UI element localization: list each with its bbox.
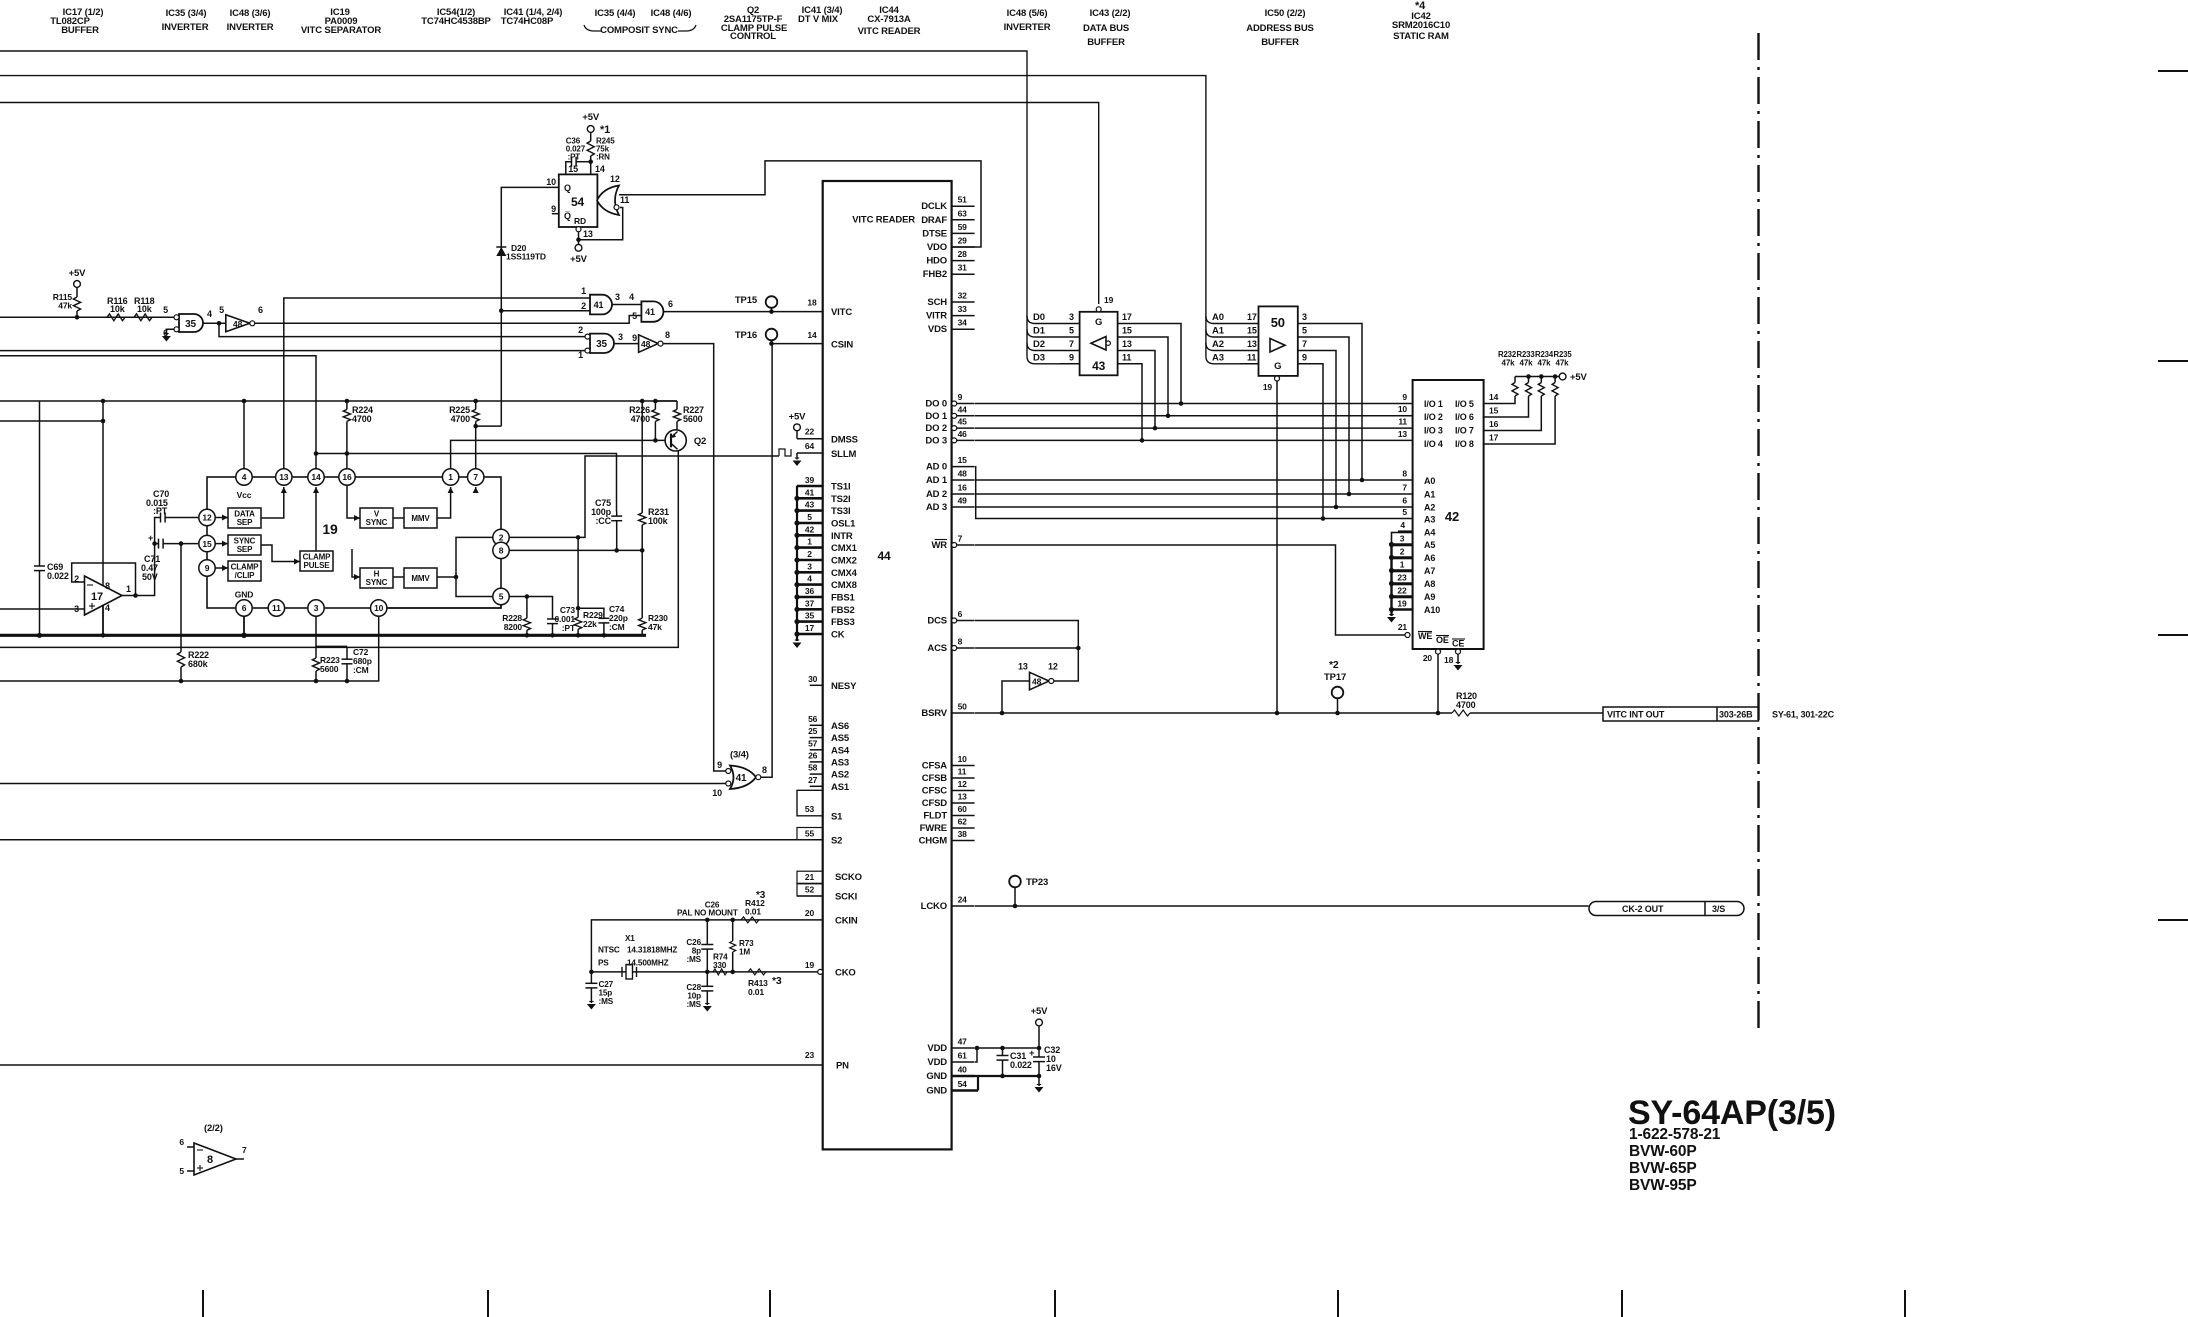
svg-text:VDD: VDD xyxy=(927,1057,947,1068)
svg-text:AS5: AS5 xyxy=(831,733,850,744)
svg-text:DO 2: DO 2 xyxy=(925,423,947,434)
svg-text:17: 17 xyxy=(1122,312,1132,322)
svg-text:2: 2 xyxy=(807,549,812,559)
capacitor C32 xyxy=(1029,1045,1062,1076)
pin 13 xyxy=(276,469,292,485)
svg-text:0.01: 0.01 xyxy=(745,907,761,917)
svg-text:51: 51 xyxy=(958,195,968,205)
pin 7 A1 xyxy=(1402,483,1435,500)
svg-text:22: 22 xyxy=(805,427,815,437)
svg-text:PAL NO MOUNT: PAL NO MOUNT xyxy=(677,909,738,918)
pin 22 DMSS xyxy=(797,427,858,446)
resistor R231 xyxy=(639,399,669,551)
svg-text:S1: S1 xyxy=(831,812,843,823)
nand IC35 gate 2 xyxy=(578,325,623,360)
buffer IC43 xyxy=(1080,312,1118,376)
svg-text:11: 11 xyxy=(958,767,967,777)
header label IC48 inverter xyxy=(227,8,274,33)
svg-text:8: 8 xyxy=(105,581,110,591)
svg-text:A2: A2 xyxy=(1212,339,1224,350)
capacitor C72 xyxy=(316,646,372,683)
svg-text:Q: Q xyxy=(564,183,571,193)
pin 23 PN xyxy=(0,1050,849,1072)
svg-text:54: 54 xyxy=(958,1079,968,1089)
svg-text:3: 3 xyxy=(1400,534,1405,544)
wire nand35-2 out xyxy=(614,343,639,345)
svg-text:7: 7 xyxy=(1069,339,1074,349)
svg-text:10: 10 xyxy=(1398,404,1408,414)
svg-text:FBS2: FBS2 xyxy=(831,605,855,616)
svg-text:41: 41 xyxy=(736,773,747,784)
svg-text:5: 5 xyxy=(499,592,504,602)
svg-text::PT: :PT xyxy=(153,506,168,516)
resistor R413 xyxy=(748,969,782,997)
svg-text:INTR: INTR xyxy=(831,531,853,542)
power +5V above 54 xyxy=(582,112,610,141)
svg-text:17: 17 xyxy=(805,623,815,633)
svg-text:11: 11 xyxy=(1398,417,1407,427)
wire Vcc rail xyxy=(0,400,677,402)
svg-text:INVERTER: INVERTER xyxy=(162,22,209,33)
svg-text:A1: A1 xyxy=(1424,490,1435,500)
svg-text:3: 3 xyxy=(1302,312,1307,322)
pin 64 SLLM xyxy=(793,441,857,466)
svg-text:5: 5 xyxy=(1069,326,1074,336)
tick right 920 xyxy=(2158,919,2188,921)
wire left entry to rail xyxy=(0,419,105,424)
svg-text:I/O 6: I/O 6 xyxy=(1455,412,1474,422)
svg-text:A7: A7 xyxy=(1424,566,1435,576)
wire nand35 out xyxy=(203,322,226,324)
svg-text:13: 13 xyxy=(1398,429,1408,439)
wire pin5 network xyxy=(509,594,552,619)
svg-text:0.01: 0.01 xyxy=(748,987,764,997)
svg-text:43: 43 xyxy=(805,500,815,510)
resistor R232 xyxy=(1498,350,1518,396)
wire AD0 jog to A3 line xyxy=(975,467,1413,519)
svg-text:I/O 1: I/O 1 xyxy=(1424,399,1443,409)
wire CSIN line xyxy=(772,343,823,345)
svg-text:12: 12 xyxy=(202,513,212,523)
wire VITC line xyxy=(663,311,822,313)
svg-text:A1: A1 xyxy=(1212,326,1225,337)
svg-text:0.022: 0.022 xyxy=(1010,1060,1032,1070)
svg-text:15: 15 xyxy=(1247,326,1257,336)
node A1 xyxy=(1206,326,1259,344)
svg-text:8: 8 xyxy=(1402,469,1407,479)
tick bottom 1905 xyxy=(1904,1290,1906,1317)
svg-text:50: 50 xyxy=(958,702,968,712)
pin 43 TS3I xyxy=(797,498,850,517)
svg-text:CKIN: CKIN xyxy=(835,916,858,927)
svg-text:CFSA: CFSA xyxy=(922,761,948,772)
capacitor C75 xyxy=(591,498,622,550)
tick right 71 xyxy=(2158,70,2188,72)
capacitor C26 xyxy=(686,920,713,972)
svg-text:37: 37 xyxy=(805,598,815,608)
svg-text:43: 43 xyxy=(1092,359,1106,373)
svg-text:34: 34 xyxy=(958,318,968,328)
svg-text:TS3I: TS3I xyxy=(831,506,850,517)
block CLAMP PULSE xyxy=(300,551,333,571)
svg-text:50: 50 xyxy=(1271,315,1285,330)
svg-text:A8: A8 xyxy=(1424,579,1435,589)
svg-text:5: 5 xyxy=(807,512,812,522)
svg-text:CKO: CKO xyxy=(835,968,856,979)
wire pin7 up arrow xyxy=(473,487,479,493)
svg-text:DO 0: DO 0 xyxy=(925,399,947,410)
pin 35 FBS3 xyxy=(797,609,855,628)
svg-text:WE: WE xyxy=(1418,631,1432,641)
pin 58 AS2 xyxy=(808,763,849,781)
pin 8 xyxy=(493,542,509,558)
svg-text:24: 24 xyxy=(958,895,968,905)
svg-text:10k: 10k xyxy=(110,304,126,314)
wire DO3 line xyxy=(975,439,1413,441)
svg-text:6: 6 xyxy=(668,299,673,309)
pin 11 IO3 xyxy=(1398,417,1474,436)
svg-text:SY-61, 301-22C: SY-61, 301-22C xyxy=(1772,710,1835,720)
svg-text:2: 2 xyxy=(581,301,586,311)
pin 6 DCS xyxy=(927,609,974,627)
resistor R228 xyxy=(502,597,530,638)
pin 17 IO8 xyxy=(1484,396,1556,444)
svg-text:23: 23 xyxy=(1397,573,1407,583)
svg-text:14: 14 xyxy=(311,472,321,482)
svg-text:12: 12 xyxy=(958,779,968,789)
svg-text:D1: D1 xyxy=(1033,326,1046,337)
header label Q2 clamp pulse control xyxy=(721,5,787,42)
pin 1 CMX1 xyxy=(797,535,858,554)
resistor R245 xyxy=(587,137,615,162)
svg-text:A0: A0 xyxy=(1424,476,1435,486)
label SY-61 301-22C xyxy=(1772,710,1835,720)
svg-text:28: 28 xyxy=(958,249,968,259)
svg-text:13: 13 xyxy=(583,229,593,239)
wire 54 pin10 to D20 xyxy=(501,187,559,426)
svg-text:7: 7 xyxy=(1402,483,1407,493)
svg-text:15: 15 xyxy=(1489,406,1499,416)
wire GND54 jog xyxy=(977,1076,979,1091)
svg-text:42: 42 xyxy=(1445,509,1459,524)
svg-text:5: 5 xyxy=(219,305,224,315)
svg-text:32: 32 xyxy=(958,291,968,301)
svg-text:13: 13 xyxy=(1247,339,1257,349)
svg-text:FLDT: FLDT xyxy=(923,811,947,822)
wire IC50 out 3 xyxy=(1298,312,1364,482)
svg-text:CSIN: CSIN xyxy=(831,340,853,351)
wire pin6 ground stem xyxy=(241,616,247,638)
svg-text:40: 40 xyxy=(958,1065,968,1075)
svg-text:TP23: TP23 xyxy=(1026,877,1048,888)
svg-text:1-622-578-21: 1-622-578-21 xyxy=(1629,1126,1721,1143)
svg-text:3/S: 3/S xyxy=(1712,904,1725,914)
svg-text:ACS: ACS xyxy=(927,643,947,654)
svg-text:A5: A5 xyxy=(1424,540,1435,550)
svg-text:AS6: AS6 xyxy=(831,721,849,732)
svg-text:100k: 100k xyxy=(648,516,669,526)
wire or gate pin12 to VDO loop xyxy=(619,161,981,247)
svg-text:60: 60 xyxy=(958,804,968,814)
title block xyxy=(1628,1094,1836,1194)
wire to H sync xyxy=(352,549,360,580)
svg-text:VDS: VDS xyxy=(928,324,947,335)
node R222 bottom xyxy=(179,679,184,684)
svg-text:9: 9 xyxy=(1069,352,1074,362)
wire opamp output xyxy=(122,518,161,596)
pin 5 OSL1 xyxy=(797,511,856,530)
wire grounded address chain xyxy=(1389,542,1394,616)
wire VDD61 jog xyxy=(975,1046,980,1062)
capacitor C70 xyxy=(146,489,198,523)
header label IC17 buffer xyxy=(50,7,103,36)
wire R229 riser xyxy=(577,537,579,608)
svg-text:52: 52 xyxy=(805,885,815,895)
header label IC54 xyxy=(421,7,491,27)
or gate IC54 retrigger xyxy=(597,174,629,215)
pin 3 CMX4 xyxy=(797,560,858,579)
svg-text:4: 4 xyxy=(629,292,634,302)
svg-text:RD: RD xyxy=(574,216,586,226)
wire H sync to MMV2 xyxy=(393,576,404,578)
svg-text:3: 3 xyxy=(1069,312,1074,322)
svg-text:8200: 8200 xyxy=(504,622,523,632)
svg-text:*3: *3 xyxy=(772,975,782,987)
wire video input line xyxy=(0,316,177,318)
resistor R235 xyxy=(1552,350,1572,396)
svg-text:BVW-65P: BVW-65P xyxy=(1629,1160,1697,1177)
resistor R233 xyxy=(1516,350,1535,396)
pin 15 IO6 xyxy=(1484,396,1529,417)
wire CKIN line xyxy=(591,918,822,972)
resistor R227 xyxy=(655,401,704,430)
svg-text:11: 11 xyxy=(1122,352,1131,362)
pin 20 CKIN xyxy=(805,908,858,927)
svg-text:19: 19 xyxy=(1263,382,1273,392)
pin 46 DO3 xyxy=(925,429,974,447)
svg-text:2: 2 xyxy=(1400,547,1405,557)
header label IC43 data bus buffer xyxy=(1083,8,1130,48)
svg-text:(2/2): (2/2) xyxy=(204,1123,223,1134)
pin 13 IO4 xyxy=(1398,429,1474,449)
svg-text:INVERTER: INVERTER xyxy=(1004,22,1051,33)
power +5V VDD xyxy=(1031,1006,1049,1048)
svg-text:CK-2 OUT: CK-2 OUT xyxy=(1622,904,1664,914)
svg-text:TP16: TP16 xyxy=(735,330,757,341)
wire 54 pin13 loop xyxy=(576,208,623,245)
capacitor C74 xyxy=(578,604,628,638)
svg-text:17: 17 xyxy=(91,591,103,603)
svg-text:STATIC RAM: STATIC RAM xyxy=(1393,31,1449,42)
pin 16 xyxy=(339,469,355,485)
pin 8 A0 xyxy=(1402,469,1435,487)
pin 32 SCH xyxy=(927,291,974,309)
svg-text:9: 9 xyxy=(551,204,556,214)
svg-text:+5V: +5V xyxy=(1570,372,1588,383)
IC19 block body xyxy=(207,477,501,608)
inverter IC48 gate 3 xyxy=(1002,648,1078,713)
pin 52 SCKI xyxy=(797,884,857,903)
svg-text:9: 9 xyxy=(1402,392,1407,402)
pin 47 VDD xyxy=(927,1037,974,1055)
ground C27 xyxy=(587,1002,596,1010)
wire IC43 out 11 xyxy=(1118,352,1145,442)
wire branch to nand35-2 pin2 xyxy=(219,323,586,336)
svg-text:8: 8 xyxy=(762,765,767,775)
svg-text:7: 7 xyxy=(958,534,963,544)
svg-text:INVERTER: INVERTER xyxy=(227,22,274,33)
wire IC50 out 9 xyxy=(1298,352,1325,521)
svg-text:HDO: HDO xyxy=(926,256,947,267)
svg-text:BUFFER: BUFFER xyxy=(1087,37,1125,48)
svg-text:MMV: MMV xyxy=(411,574,430,583)
svg-text:1SS119TD: 1SS119TD xyxy=(506,252,546,262)
svg-text:47k: 47k xyxy=(1556,359,1570,368)
svg-text:CONTROL: CONTROL xyxy=(730,31,776,42)
svg-text:9: 9 xyxy=(632,333,637,343)
wire AD2 A1 line xyxy=(975,493,1413,495)
pin 9 DO0 xyxy=(925,392,974,410)
tick bottom 1055 xyxy=(1054,1290,1056,1317)
pin 19 CKO xyxy=(805,960,856,979)
wire IC43 out 17 xyxy=(1118,312,1184,406)
svg-text:VITC READER: VITC READER xyxy=(858,26,921,37)
wire AD3 A2 line xyxy=(975,506,1413,508)
pin 14 xyxy=(308,469,324,485)
pin 19 IC43 enable xyxy=(1096,295,1113,312)
pin 53 S1 xyxy=(797,790,843,822)
pin 15 xyxy=(199,535,215,551)
svg-text:55: 55 xyxy=(805,829,815,839)
svg-text:41: 41 xyxy=(645,307,655,317)
wire V sync to MMV xyxy=(393,517,404,519)
pin 4 Vcc xyxy=(236,469,252,500)
svg-text:7: 7 xyxy=(242,1145,247,1155)
svg-text:TP17: TP17 xyxy=(1324,672,1346,683)
pin 31 FHB2 xyxy=(923,263,975,281)
svg-text:4: 4 xyxy=(207,309,212,319)
svg-text:I/O 7: I/O 7 xyxy=(1455,426,1474,436)
svg-text:IC48 (3/6): IC48 (3/6) xyxy=(230,8,271,19)
resistor R229 xyxy=(575,606,604,638)
svg-text:I/O 5: I/O 5 xyxy=(1455,399,1474,409)
svg-text:D3: D3 xyxy=(1033,352,1045,363)
svg-text:47k: 47k xyxy=(1520,359,1534,368)
pin 9 xyxy=(199,560,215,576)
svg-text:61: 61 xyxy=(958,1051,968,1061)
capacitor C36 xyxy=(566,137,591,175)
wire pin10 to pin5 xyxy=(387,605,501,608)
svg-text::CM: :CM xyxy=(609,622,625,632)
svg-text:AS2: AS2 xyxy=(831,770,849,781)
wire CKO line xyxy=(589,970,818,975)
pin 44 DO1 xyxy=(925,404,974,422)
svg-text:4: 4 xyxy=(807,574,812,584)
pin 2 xyxy=(493,529,509,545)
svg-text:TC74HC08P: TC74HC08P xyxy=(501,16,554,27)
node R115 junction xyxy=(75,315,80,320)
svg-text:41: 41 xyxy=(805,487,815,497)
pin 14 CSIN xyxy=(807,330,853,351)
pin 41 TS2I xyxy=(797,486,850,505)
svg-text:SRM2016C10: SRM2016C10 xyxy=(1392,20,1450,31)
svg-text:2: 2 xyxy=(499,533,504,543)
wire D20 to R225 elbow xyxy=(476,425,502,427)
svg-text:16V: 16V xyxy=(1046,1063,1062,1073)
header label IC19 VITC separator xyxy=(301,7,382,36)
pin 40 GND xyxy=(926,1065,975,1083)
capacitor C31 xyxy=(997,1048,1032,1076)
svg-text:AS1: AS1 xyxy=(831,782,850,793)
wire data sep to pin13 xyxy=(261,487,287,518)
svg-text:48: 48 xyxy=(958,469,968,479)
svg-text:19: 19 xyxy=(322,521,338,537)
wire nor41 pin10 from edge xyxy=(0,783,726,785)
svg-text:*1: *1 xyxy=(600,124,610,136)
svg-text:21: 21 xyxy=(1398,622,1408,632)
block MMV 2 xyxy=(404,568,437,588)
svg-text:1: 1 xyxy=(1400,560,1405,570)
pin 26 AS3 xyxy=(808,750,849,768)
svg-text::MS: :MS xyxy=(686,1000,701,1009)
svg-text:VITC SEPARATOR: VITC SEPARATOR xyxy=(301,25,382,36)
svg-text:SYNC: SYNC xyxy=(366,518,388,527)
pin 4 A4 xyxy=(1398,520,1435,538)
svg-text:25: 25 xyxy=(808,726,818,736)
testpoint TP23 xyxy=(1009,876,1048,909)
wire pin2 output xyxy=(509,456,779,540)
wire DO0 line xyxy=(975,403,1413,405)
pin 19 A10 xyxy=(1392,598,1441,616)
header label IC42 static RAM xyxy=(1392,0,1450,42)
tick bottom 1622 xyxy=(1621,1290,1623,1317)
svg-text:GND: GND xyxy=(926,1086,947,1097)
pin 18 CE xyxy=(1444,649,1463,670)
svg-text:A10: A10 xyxy=(1424,605,1440,615)
inverter IC48 gate 2 xyxy=(632,330,670,352)
svg-text:OE: OE xyxy=(1436,635,1449,645)
svg-text:PULSE: PULSE xyxy=(304,561,331,570)
svg-text:10: 10 xyxy=(546,177,556,187)
svg-text:/CLIP: /CLIP xyxy=(235,571,256,580)
pin 42 INTR xyxy=(797,523,853,542)
svg-text:+: + xyxy=(1029,1048,1035,1059)
svg-text:10k: 10k xyxy=(137,304,153,314)
svg-text:62: 62 xyxy=(958,817,968,827)
svg-text:CFSD: CFSD xyxy=(922,798,948,809)
svg-text:20: 20 xyxy=(805,908,815,918)
pin 18 VITC xyxy=(807,298,852,318)
pulse waveform symbol xyxy=(779,449,791,456)
svg-text:SEP: SEP xyxy=(237,545,253,554)
wire pin8 line xyxy=(509,548,644,553)
inverter IC48 gate 1 xyxy=(219,305,263,332)
pin 55 S2 xyxy=(0,828,842,847)
pin 30 NESY xyxy=(808,674,857,692)
testpoint TP16 xyxy=(735,329,777,346)
capacitor C73 xyxy=(547,605,576,638)
tick bottom 770 xyxy=(769,1290,771,1317)
svg-text:BUFFER: BUFFER xyxy=(61,25,99,36)
capacitor C71 xyxy=(141,533,198,582)
wire and41-1 pin1 xyxy=(284,298,590,477)
header label IC44 VITC reader xyxy=(858,5,921,37)
wire pin3 stem R223 xyxy=(312,616,340,683)
wire ACS xyxy=(975,646,1081,651)
svg-text:CMX1: CMX1 xyxy=(831,543,858,554)
svg-text:54: 54 xyxy=(571,195,585,209)
pin 22 A9 xyxy=(1392,585,1436,603)
